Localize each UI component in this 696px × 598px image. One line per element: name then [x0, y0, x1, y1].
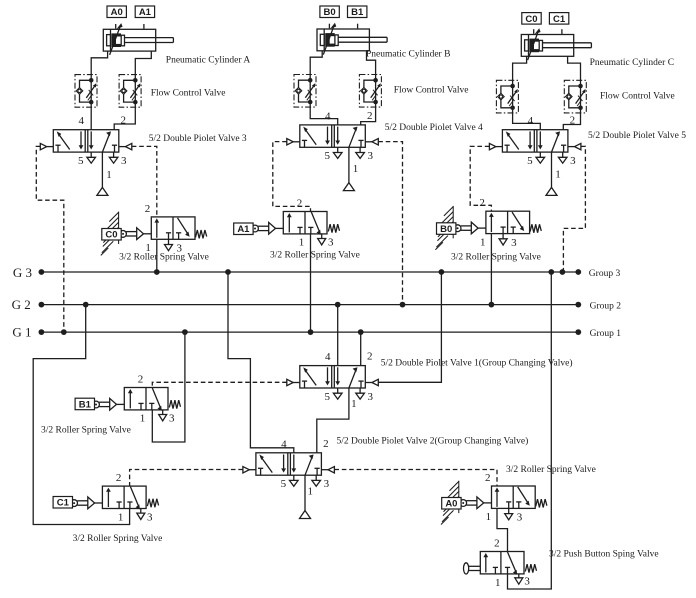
label 5/2 Double Piolet Valve 3 — [149, 134, 247, 144]
svg-text:Pneumatic Cylinder C: Pneumatic Cylinder C — [590, 58, 674, 68]
label 3/2 Roller Spring Valve C1 — [73, 534, 163, 544]
svg-text:Flow Control Valve: Flow Control Valve — [151, 89, 226, 99]
flow control valve C rear — [496, 80, 518, 113]
svg-text:3/2 Roller Spring Valve: 3/2 Roller Spring Valve — [270, 250, 360, 260]
wire A1 port 1 to G1 — [310, 234, 312, 332]
svg-text:C1: C1 — [553, 14, 566, 25]
wire flow valve A to valve V3 port 4 — [90, 107, 92, 130]
valve V3 port 1 supply — [97, 152, 108, 195]
junction PB-G3 — [548, 269, 554, 275]
label 5/2 Double Piolet Valve 5 — [588, 131, 686, 141]
svg-text:Pneumatic Cylinder A: Pneumatic Cylinder A — [166, 56, 251, 66]
wire C1 port 1 to G2 — [33, 305, 129, 525]
5/2 double pilot valve V4 — [287, 110, 379, 162]
wire B1 port 1 to G1 — [152, 332, 185, 442]
wire flow valve B to valve V4 port 4 — [310, 107, 338, 125]
svg-text:3/2 Roller Spring Valve: 3/2 Roller Spring Valve — [41, 425, 131, 435]
svg-text:3/2 Roller Spring Valve: 3/2 Roller Spring Valve — [119, 253, 209, 263]
svg-text:1: 1 — [106, 169, 112, 181]
label 3/2 Roller Spring Valve B1 — [41, 425, 131, 435]
group line G3 — [41, 271, 578, 273]
group line G1 — [41, 331, 578, 333]
sensor tag C1 — [549, 13, 568, 25]
svg-text:A0: A0 — [111, 7, 123, 18]
5/2 double pilot valve V2 group changer — [243, 438, 335, 490]
pilot line valve V4 left to A1 port 2 — [273, 142, 311, 212]
3/2 roller spring valve A0 — [460, 472, 547, 524]
junction G3 end — [575, 269, 581, 275]
svg-text:Flow Control Valve: Flow Control Valve — [600, 92, 675, 102]
wire A0 port 1 to push button valve port 2 — [497, 508, 508, 551]
3/2 roller spring valve A1 — [252, 197, 340, 248]
3/2 roller spring valve B0 — [454, 197, 541, 249]
svg-text:Group 1: Group 1 — [590, 329, 622, 339]
label Group 2 — [590, 301, 622, 311]
wire cylinder A right port to flow valve — [135, 51, 151, 75]
label Group 3 — [589, 269, 621, 279]
flow control valve A front — [119, 75, 141, 108]
svg-text:3/2 Roller Spring Valve: 3/2 Roller Spring Valve — [451, 252, 541, 262]
svg-text:C0: C0 — [105, 230, 117, 241]
valve V4 port 1 supply — [343, 147, 354, 190]
valve V1 port 1 label — [351, 398, 357, 410]
svg-text:B0: B0 — [324, 7, 336, 18]
svg-text:G 1: G 1 — [12, 325, 31, 340]
flow control valve A rear — [75, 75, 97, 108]
valve V5 port 1 label — [555, 169, 561, 181]
5/2 double pilot valve V5 — [489, 115, 581, 167]
label 3/2 Roller Spring Valve A0 — [506, 465, 596, 475]
wall for roller valve C0 — [101, 212, 119, 256]
label Pneumatic Cylinder B — [366, 50, 450, 60]
svg-text:A1: A1 — [237, 224, 250, 235]
wall for roller valve B0 — [435, 206, 453, 250]
svg-text:5/2 Double Piolet Valve 4: 5/2 Double Piolet Valve 4 — [385, 123, 483, 133]
label 3/2 Roller Spring Valve A1 — [270, 250, 360, 260]
wire cylinder C right port to flow valve — [568, 56, 581, 80]
label 5/2 Double Piolet Valve 1 — [381, 358, 573, 369]
valve V5 port 1 supply — [546, 152, 557, 195]
label G1 — [12, 325, 31, 340]
wire B0 port 1 to G2 — [490, 234, 492, 305]
label 3/2 Roller Spring Valve B0 — [451, 252, 541, 262]
junction V2p4-G3 — [225, 269, 231, 275]
group line G2 — [41, 304, 578, 306]
label 3/2 Push Button Sping Valve — [549, 549, 659, 559]
wire G3 to valve V2 port 4 — [228, 272, 294, 453]
valve V3 port 1 label — [106, 169, 112, 181]
tag B1 on roller valve — [75, 398, 94, 410]
svg-text:Pneumatic Cylinder B: Pneumatic Cylinder B — [366, 50, 450, 60]
svg-text:C1: C1 — [57, 498, 70, 509]
junction V4pilot-G2 — [400, 302, 406, 308]
pilot line valve V3 right to C0 port 2 — [132, 146, 157, 217]
svg-text:5/2 Double Piolet Valve 3: 5/2 Double Piolet Valve 3 — [149, 134, 247, 144]
label Flow Control Valve B — [394, 86, 469, 96]
svg-text:G 2: G 2 — [12, 297, 31, 312]
junction G2 start — [39, 302, 45, 308]
tag C1 on roller valve — [53, 497, 72, 509]
wire valve V1 right pilot to G3 — [378, 272, 441, 382]
label G2 — [12, 297, 31, 312]
sensor tag A0 — [107, 6, 126, 18]
wire flow valve A to valve V3 port 2 — [114, 107, 135, 130]
pneumatic cylinder B — [317, 23, 387, 55]
flow control valve C front — [564, 80, 586, 113]
label G3 — [13, 265, 32, 280]
svg-text:Group 3: Group 3 — [589, 269, 621, 279]
wire cylinder C left port to flow valve — [513, 56, 527, 80]
wire G1 to valve V1 port 2 — [360, 332, 362, 366]
wire G2 to valve V1 port 4 — [337, 305, 339, 366]
svg-text:5/2 Double Piolet Valve 1(Grou: 5/2 Double Piolet Valve 1(Group Changing… — [381, 358, 573, 369]
svg-text:3/2 Roller Spring Valve: 3/2 Roller Spring Valve — [506, 465, 596, 475]
label Flow Control Valve A — [151, 89, 226, 99]
tag B0 on roller valve — [437, 223, 456, 235]
junction G1 end — [575, 329, 581, 335]
wire G3 to push button valve port 1 — [508, 272, 552, 589]
junction G2 end — [575, 302, 581, 308]
junction C0-G3 — [154, 269, 160, 275]
wire cylinder B left port to flow valve — [310, 51, 322, 75]
svg-text:C0: C0 — [525, 14, 537, 25]
sensor tag B0 — [320, 6, 339, 18]
junction B1-G1 — [182, 329, 188, 335]
flow control valve B front — [359, 75, 381, 108]
svg-text:A1: A1 — [139, 7, 152, 18]
junction G1 start — [39, 329, 45, 335]
tag A1 on roller valve — [234, 223, 253, 235]
junction V3pilot-G1 — [61, 329, 67, 335]
svg-text:G 3: G 3 — [13, 265, 32, 280]
label 3/2 Roller Spring Valve C0 — [119, 253, 209, 263]
3/2 roller spring valve C0 — [120, 203, 207, 255]
wire cylinder A left port to flow valve — [91, 51, 107, 75]
junction V1pilot-G3 — [439, 269, 445, 275]
valve V4 port 1 label — [353, 163, 359, 175]
junction V1p2-G1 — [358, 329, 364, 335]
wire flow valve C to valve V5 port 2 — [563, 113, 580, 130]
junction V5pilot-G3 — [560, 269, 566, 275]
svg-text:5/2 Double Piolet Valve 5: 5/2 Double Piolet Valve 5 — [588, 131, 686, 141]
3/2 roller spring valve B1 — [93, 373, 181, 424]
svg-text:A0: A0 — [445, 499, 457, 510]
svg-text:B1: B1 — [351, 7, 364, 18]
valve V2 port 1 label — [307, 486, 313, 498]
svg-text:1: 1 — [307, 486, 313, 498]
pilot line valve V5 left to B0 port 2 — [470, 146, 491, 211]
svg-text:1: 1 — [351, 398, 357, 410]
wire cylinder B right port to flow valve — [367, 51, 376, 75]
pilot line valve V5 right to G3 — [563, 146, 585, 272]
flow control valve B rear — [294, 75, 316, 108]
svg-text:5/2 Double Piolet Valve 2(Grou: 5/2 Double Piolet Valve 2(Group Changing… — [337, 436, 529, 447]
svg-text:B0: B0 — [440, 224, 452, 235]
junction G3 start — [39, 269, 45, 275]
pneumatic cylinder C — [521, 28, 591, 60]
svg-text:Group 2: Group 2 — [590, 301, 622, 311]
label Pneumatic Cylinder C — [590, 58, 674, 68]
valve V2 port 1 supply — [300, 475, 311, 518]
junction A1-G1 — [308, 329, 314, 335]
label Group 1 — [590, 329, 622, 339]
pilot line valve V3 left to G1 — [36, 146, 64, 332]
5/2 double pilot valve V3 — [40, 115, 132, 167]
svg-text:1: 1 — [353, 163, 359, 175]
label Pneumatic Cylinder A — [166, 56, 251, 66]
svg-text:3/2 Roller Spring Valve: 3/2 Roller Spring Valve — [73, 534, 163, 544]
wall for roller valve A0 — [441, 481, 459, 525]
3/2 roller spring valve C1 — [71, 472, 159, 523]
sensor tag C0 — [522, 13, 541, 25]
sensor tag B1 — [348, 6, 367, 18]
pilot line valve V1 left to B1 port 2 — [152, 382, 286, 387]
svg-text:B1: B1 — [79, 399, 92, 410]
pneumatic cylinder A — [103, 23, 173, 55]
svg-text:3/2 Push Button Sping Valve: 3/2 Push Button Sping Valve — [549, 549, 659, 559]
5/2 double pilot valve V1 group changer — [287, 351, 379, 403]
label Flow Control Valve C — [600, 92, 675, 102]
svg-text:1: 1 — [555, 169, 561, 181]
svg-text:Flow Control Valve: Flow Control Valve — [394, 86, 469, 96]
junction B0-G2 — [489, 302, 495, 308]
label 5/2 Double Piolet Valve 4 — [385, 123, 483, 133]
3/2 push button spring valve PB — [464, 538, 537, 589]
junction C1-G2 — [83, 302, 89, 308]
pilot line valve V2 left to C1 port 2 — [130, 470, 243, 487]
tag C0 on roller valve — [102, 229, 121, 241]
pilot line valve V4 right to G2 — [378, 142, 402, 305]
sensor tag A1 — [135, 6, 154, 18]
label 5/2 Double Piolet Valve 2 — [337, 436, 529, 447]
wire flow valve C to valve V5 port 4 — [513, 113, 541, 130]
wire valve V1 port 1 to valve V2 port 2 — [317, 388, 349, 453]
junction V1p4-G2 — [335, 302, 341, 308]
wire flow valve B to valve V4 port 2 — [361, 107, 376, 125]
pilot line valve V2 right to A0 port 2 — [334, 470, 497, 487]
wire C0 port 1 to G3 — [156, 240, 158, 273]
tag A0 on roller valve — [442, 498, 461, 510]
